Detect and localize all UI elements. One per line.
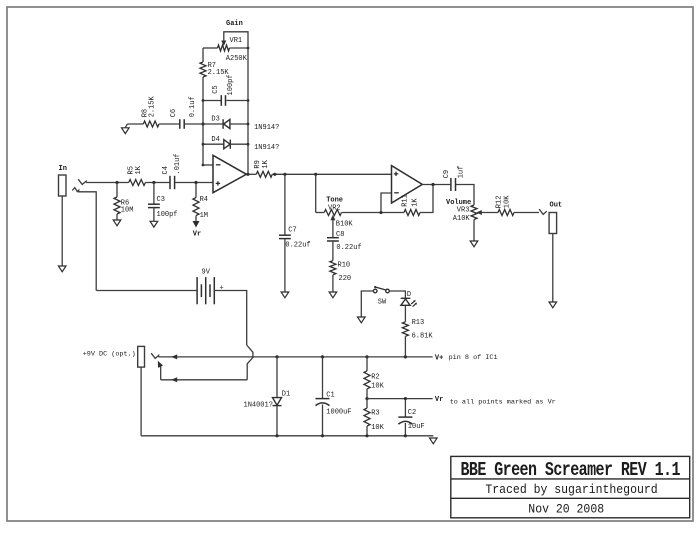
- svg-text:V+: V+: [435, 354, 443, 362]
- label R10 value 220: [339, 275, 352, 283]
- capacitor C6: [180, 119, 184, 129]
- wire R6 bottom lead: [116, 214, 118, 220]
- label +9V DC (opt.): [83, 350, 136, 358]
- label R9: [254, 160, 262, 168]
- LED light arrows: [411, 300, 417, 307]
- ground rail terminal: [430, 438, 438, 444]
- wire V+ rail: [159, 356, 433, 358]
- label R4: [200, 196, 208, 204]
- wire R10 bottom lead: [332, 275, 334, 292]
- wire VR2 wiper down: [332, 218, 334, 238]
- label C2 value 10uF: [408, 423, 425, 431]
- svg-text:1N4001?: 1N4001?: [244, 401, 273, 409]
- DC jack J3: [138, 346, 145, 367]
- wire C1 top lead: [322, 357, 324, 399]
- svg-text:+9V DC (opt.): +9V DC (opt.): [83, 350, 136, 358]
- wire input jack sleeve: [61, 196, 63, 266]
- wire battery positive: [214, 291, 246, 346]
- ground C3: [150, 221, 158, 227]
- wire R13 bottom lead: [404, 336, 406, 357]
- svg-text:1uf: 1uf: [457, 166, 465, 179]
- net label Vr: [435, 396, 443, 404]
- junction node C7: [283, 173, 286, 176]
- svg-text:R12: R12: [496, 196, 504, 209]
- label C9: [443, 170, 451, 178]
- svg-text:0.1uf: 0.1uf: [189, 96, 197, 117]
- label R13 value 6.81K: [412, 332, 434, 340]
- svg-text:10M: 10M: [121, 206, 134, 214]
- ground output jack: [549, 302, 557, 308]
- label R8 value 2.15K: [148, 95, 156, 117]
- wire switch to ground: [361, 291, 373, 317]
- svg-text:BBE Green Screamer REV 1.1: BBE Green Screamer REV 1.1: [460, 460, 680, 481]
- label R12 value 10K: [503, 195, 511, 208]
- ground R10: [329, 292, 337, 298]
- label R5 value 1K: [135, 165, 143, 174]
- label C8: [336, 231, 344, 239]
- svg-text:In: In: [59, 165, 67, 173]
- resistor R5: [129, 180, 146, 186]
- junction left rail / R8 branch: [201, 122, 204, 125]
- svg-text:R3: R3: [371, 410, 379, 418]
- input jack J1: [59, 175, 67, 196]
- resistor R8: [143, 121, 159, 127]
- svg-text:C1: C1: [326, 392, 334, 400]
- label C8 value 0.22uf: [336, 244, 361, 252]
- DC jack switch contact arrow: [158, 361, 163, 368]
- label D3: [211, 116, 219, 124]
- capacitor C8: [327, 238, 339, 241]
- resistor R10: [330, 261, 336, 275]
- wire R12 to out jack: [514, 212, 539, 214]
- label R9 value 1K: [262, 159, 270, 168]
- label battery 9V: [202, 268, 211, 276]
- label R11 value 1K: [412, 198, 420, 207]
- wire C3 bottom lead: [153, 208, 155, 222]
- wire C8 to R10: [332, 241, 334, 261]
- wire C3 top lead: [153, 183, 155, 205]
- svg-text:1N914?: 1N914?: [254, 144, 279, 152]
- svg-text:A250K: A250K: [226, 55, 248, 63]
- label C5 value 100pf: [227, 74, 235, 95]
- label R7 value 2.15K: [208, 69, 230, 77]
- junction C5 right rail: [247, 99, 250, 102]
- svg-text:VR3: VR3: [457, 206, 470, 214]
- label C7 value 0.22uf: [285, 241, 310, 249]
- svg-text:1N914?: 1N914?: [254, 124, 279, 132]
- svg-text:100pf: 100pf: [157, 211, 178, 219]
- label C6: [170, 109, 178, 117]
- svg-text:6.81K: 6.81K: [412, 332, 434, 340]
- switch SW: [373, 286, 389, 293]
- label C5: [212, 85, 220, 93]
- label R8: [141, 109, 149, 117]
- svg-text:C6: C6: [170, 109, 178, 117]
- svg-text:Nov 20 2008: Nov 20 2008: [528, 502, 604, 517]
- wire D1 top lead: [276, 357, 278, 398]
- svg-text:to all points marked as Vr: to all points marked as Vr: [450, 398, 556, 406]
- label VR1 value A250K: [226, 55, 248, 63]
- label R5: [128, 166, 136, 174]
- input jack ring contact: [72, 188, 96, 291]
- LED D: [401, 298, 411, 305]
- wire R9 to opamp2: [272, 173, 391, 175]
- label R2 value 10K: [371, 383, 384, 391]
- title text Nov 20 2008: [528, 502, 604, 517]
- svg-text:D1: D1: [282, 390, 290, 398]
- wire R4 bottom lead: [195, 216, 197, 222]
- junction ground rail / C1: [321, 434, 324, 437]
- ground switch: [358, 317, 366, 323]
- svg-text:1M: 1M: [200, 212, 208, 220]
- diode D4: [224, 140, 231, 149]
- junction V+ rail / R2: [365, 355, 368, 358]
- svg-text:2.15K: 2.15K: [208, 69, 230, 77]
- wire R2 top lead: [366, 357, 368, 371]
- wire C1 bottom lead: [322, 405, 324, 436]
- op-amp IC1a plus marker: [216, 181, 220, 185]
- wire tone drop: [315, 174, 317, 212]
- title text BBE Green Screamer REV 1.1: [460, 460, 680, 481]
- label R6 value 10M: [121, 206, 134, 214]
- potentiometer VR3: [471, 205, 477, 220]
- label C4 value .01uf: [174, 153, 182, 174]
- svg-text:pin 8 of IC1: pin 8 of IC1: [449, 354, 498, 362]
- wire C5 right lead: [226, 100, 248, 102]
- label VR3: [457, 206, 470, 214]
- arrow battery return to jack: [171, 377, 177, 382]
- potentiometer VR2: [324, 210, 341, 216]
- wire R13 to LED: [404, 305, 406, 322]
- wire Vr rail: [367, 398, 433, 400]
- label D1: [282, 390, 290, 398]
- resistor R4: [193, 198, 199, 216]
- wire C7 top lead: [284, 174, 286, 235]
- capacitor C2: [398, 417, 412, 424]
- svg-text:B10K: B10K: [336, 220, 354, 228]
- op-amp IC1b minus marker: [394, 192, 399, 194]
- label Gain: [226, 20, 243, 28]
- label C1 value 1000uF: [326, 408, 351, 416]
- diode D1: [273, 398, 282, 406]
- capacitor C1: [316, 399, 330, 406]
- svg-text:220: 220: [339, 275, 352, 283]
- label C1: [326, 392, 334, 400]
- svg-text:R4: R4: [200, 196, 208, 204]
- wire opamp1 out to R9: [246, 173, 256, 175]
- wire ground rail: [141, 435, 433, 437]
- capacitor C9: [451, 178, 456, 191]
- svg-text:C2: C2: [408, 409, 416, 417]
- label C6 value 0.1uf: [189, 96, 197, 117]
- junction inverting input rail: [202, 164, 205, 167]
- svg-text:.01uf: .01uf: [174, 153, 182, 174]
- output jack J2: [549, 213, 557, 234]
- wire VR3 wiper to R12: [479, 212, 498, 214]
- svg-text:C9: C9: [443, 170, 451, 178]
- label D4: [211, 136, 219, 144]
- wire DC jack sleeve: [140, 367, 142, 436]
- ground C7: [281, 292, 289, 298]
- label D3 value 1N914?: [254, 124, 279, 132]
- ground R8 branch: [122, 128, 130, 134]
- capacitor C7: [279, 235, 291, 238]
- wire feedback to R11: [381, 212, 404, 214]
- label LED D: [407, 291, 411, 299]
- label In: [59, 165, 67, 173]
- label VR2 value B10K: [336, 220, 354, 228]
- svg-text:10uF: 10uF: [408, 423, 425, 431]
- svg-text:2.15K: 2.15K: [148, 95, 156, 117]
- wire R11 to output: [420, 185, 433, 213]
- junction node in / R6: [115, 181, 118, 184]
- junction output / feedback: [431, 183, 434, 186]
- svg-text:10K: 10K: [371, 424, 384, 432]
- label pin 8 of IC1: [449, 354, 498, 362]
- junction D4 left rail: [202, 143, 205, 146]
- wire R8 left lead: [127, 123, 143, 125]
- svg-text:Tone: Tone: [326, 196, 343, 204]
- resistor R13: [402, 322, 408, 337]
- label C7: [288, 226, 296, 234]
- svg-text:SW: SW: [378, 299, 387, 307]
- wire battery hop over rail: [247, 345, 253, 380]
- junction C5 left rail: [202, 99, 205, 102]
- output jack tip contact: [539, 209, 547, 214]
- label R11: [402, 194, 410, 207]
- wire VR3 bottom lead: [473, 220, 475, 242]
- label R13: [412, 319, 425, 327]
- wire VR2 right lead: [342, 212, 382, 214]
- svg-text:C7: C7: [288, 226, 296, 234]
- wire VR1 right lead: [230, 47, 249, 49]
- wire R2 to Vr rail: [366, 389, 368, 399]
- arrow V+ rail to jack: [171, 354, 177, 359]
- input jack tip contact: [78, 179, 86, 184]
- title block box: [451, 456, 690, 517]
- svg-text:0.22uf: 0.22uf: [285, 241, 310, 249]
- svg-text:R10: R10: [338, 261, 351, 269]
- wire C5 left lead: [203, 100, 222, 102]
- resistor R11: [404, 210, 420, 216]
- junction feedback node: [379, 211, 382, 214]
- svg-text:C3: C3: [157, 196, 165, 204]
- junction V+ rail / C1: [321, 355, 324, 358]
- wire C4 to opamp: [175, 182, 213, 184]
- svg-text:Out: Out: [550, 202, 563, 210]
- junction opamp1 output / gain rail: [246, 173, 249, 176]
- label VR1: [230, 37, 243, 45]
- junction node Tone: [314, 173, 317, 176]
- ground VR3: [470, 241, 478, 247]
- op-amp IC1b plus marker: [394, 172, 398, 176]
- wire R8 to C6: [159, 123, 180, 125]
- wire R4 top lead: [195, 183, 197, 198]
- label Out: [550, 202, 563, 210]
- title text Traced by sugarinthegourd: [485, 483, 657, 498]
- junction VR1 right terminal: [247, 47, 250, 50]
- wire right feedback rail: [247, 48, 249, 174]
- wire C2 bottom lead: [404, 423, 406, 436]
- wire C2 top lead: [404, 399, 406, 418]
- svg-text:R2: R2: [371, 374, 379, 382]
- label Tone: [326, 196, 343, 204]
- svg-text:A10K: A10K: [453, 215, 471, 223]
- wire C6 to left rail: [184, 123, 203, 125]
- wire R3 bottom lead: [366, 426, 368, 436]
- wire D3 left lead: [203, 123, 223, 125]
- op-amp IC1a: [213, 155, 246, 192]
- wire LED to switch: [389, 291, 405, 298]
- op-amp IC1b: [392, 166, 423, 203]
- svg-text:100pf: 100pf: [227, 74, 235, 95]
- junction ground rail / D1: [275, 434, 278, 437]
- wire left rail below R7: [202, 77, 204, 165]
- label R6: [121, 199, 129, 207]
- label VR3 value A10K: [453, 215, 471, 223]
- battery B1: [197, 277, 214, 304]
- junction D4 right rail: [247, 143, 250, 146]
- wire output jack sleeve: [552, 234, 554, 303]
- label D4 value 1N914?: [254, 144, 279, 152]
- wire D1 bottom lead: [276, 406, 278, 436]
- svg-text:VR2: VR2: [328, 204, 341, 212]
- svg-text:1K: 1K: [262, 159, 270, 168]
- label R12: [496, 196, 504, 209]
- label to all points marked as Vr: [450, 398, 556, 406]
- wire VR2 left lead: [316, 212, 325, 214]
- label C3 value 100pf: [157, 211, 178, 219]
- ground R6: [113, 220, 121, 226]
- net arrow Vr at R4: [193, 221, 200, 228]
- wire input node: [86, 182, 129, 184]
- VR2 wiper arrow: [330, 215, 335, 221]
- wire VR1 left lead: [203, 47, 218, 49]
- svg-text:Vr: Vr: [193, 231, 201, 239]
- label R3 value 10K: [371, 424, 384, 432]
- net label V+: [435, 354, 443, 362]
- wire opamp2 output: [422, 184, 450, 186]
- label C2: [408, 409, 416, 417]
- junction after R9: [273, 173, 276, 176]
- resistor R9: [256, 171, 272, 177]
- wire R6 top lead: [116, 183, 118, 198]
- junction ground rail / C2: [404, 434, 407, 437]
- svg-text:D4: D4: [211, 136, 219, 144]
- wire switch riser: [160, 366, 162, 380]
- resistor R6: [114, 197, 120, 214]
- capacitor C3: [148, 204, 160, 207]
- capacitor C4: [170, 176, 175, 189]
- op-amp IC1a minus marker: [216, 164, 221, 166]
- wire feedback up to inverting input: [381, 193, 392, 213]
- DC jack tip contact: [151, 353, 158, 358]
- svg-text:C8: C8: [336, 231, 344, 239]
- svg-text:D: D: [407, 291, 411, 299]
- svg-text:Traced by sugarinthegourd: Traced by sugarinthegourd: [485, 483, 657, 498]
- label SW: [378, 299, 387, 307]
- svg-text:1000uF: 1000uF: [326, 408, 351, 416]
- wire VR1 wiper loop: [224, 32, 248, 48]
- wire left feedback rail: [202, 48, 204, 62]
- svg-text:R13: R13: [412, 319, 425, 327]
- wire D4 right lead: [230, 143, 248, 145]
- svg-text:10K: 10K: [371, 383, 384, 391]
- junction Vr rail / C2: [404, 397, 407, 400]
- svg-text:9V: 9V: [202, 268, 211, 276]
- label VR2: [328, 204, 341, 212]
- wire R3 top lead: [366, 399, 368, 409]
- junction D3 right rail: [247, 123, 250, 126]
- wire R5 to C4: [145, 182, 170, 184]
- svg-text:C5: C5: [212, 85, 220, 93]
- net label Vr below R4: [193, 231, 201, 239]
- label R10: [338, 261, 351, 269]
- capacitor C5: [221, 95, 225, 106]
- junction V+ rail / D1: [275, 355, 278, 358]
- junction C4 / R4: [194, 181, 197, 184]
- svg-text:1K: 1K: [135, 165, 143, 174]
- junction R5 / C3: [152, 181, 155, 184]
- label R3: [371, 410, 379, 418]
- svg-text:Vr: Vr: [435, 396, 443, 404]
- svg-text:VR1: VR1: [230, 37, 243, 45]
- label R7: [208, 62, 216, 70]
- wire battery to DC jack switch: [161, 379, 248, 381]
- ground input jack: [58, 266, 66, 272]
- junction Vr node: [365, 397, 368, 400]
- wire D4 left lead: [203, 143, 223, 145]
- resistor R7: [200, 62, 206, 77]
- label battery plus: [220, 284, 224, 292]
- wire C7 bottom lead: [284, 239, 286, 292]
- wire D3 right lead: [230, 123, 248, 125]
- label C3: [157, 196, 165, 204]
- wire R8 ground stub: [125, 124, 127, 128]
- label D1 value 1N4001?: [244, 401, 273, 409]
- svg-text:R11: R11: [402, 194, 410, 207]
- label R4 value 1M: [200, 212, 208, 220]
- resistor R2: [364, 371, 370, 389]
- svg-text:10K: 10K: [503, 195, 511, 208]
- label C9 value 1uf: [457, 166, 465, 179]
- label Volume: [446, 199, 471, 207]
- potentiometer VR1: [218, 45, 230, 51]
- wire opamp1 inverting input: [203, 164, 213, 166]
- resistor R3: [364, 408, 370, 426]
- svg-text:1K: 1K: [412, 198, 420, 207]
- svg-text:R9: R9: [254, 160, 262, 168]
- wire C9 to VR3: [456, 185, 474, 206]
- junction ground rail / R3: [365, 434, 368, 437]
- diode D3: [223, 119, 230, 129]
- svg-text:0.22uf: 0.22uf: [336, 244, 361, 252]
- resistor R12: [498, 210, 514, 216]
- junction V+ rail / R13: [404, 355, 407, 358]
- svg-text:C4: C4: [162, 166, 170, 174]
- VR1 wiper arrow: [221, 41, 226, 47]
- VR3 wiper arrow: [476, 210, 482, 215]
- svg-text:Gain: Gain: [226, 20, 243, 28]
- label C4: [162, 166, 170, 174]
- svg-text:D3: D3: [211, 116, 219, 124]
- wire battery negative: [96, 290, 197, 292]
- label R2: [371, 374, 379, 382]
